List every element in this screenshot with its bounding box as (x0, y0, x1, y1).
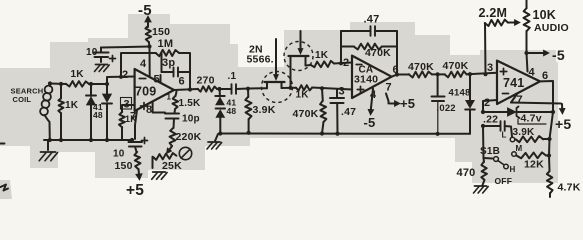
output wire U2 to 741 (392, 72, 488, 77)
op-amp U3 741 (484, 61, 548, 109)
switch S1B position H (504, 164, 516, 174)
svg-text:270: 270 (197, 75, 215, 87)
transistor Q1a 2N5566 JFET (lower) (247, 39, 297, 103)
svg-text:10p: 10p (182, 114, 200, 125)
power -5 (U1 pin 4 supply) (138, 2, 152, 27)
power +5 (U2 pin 7) (386, 94, 415, 112)
resistor 470K (U2 feedback) (354, 43, 391, 59)
resistor 1K (U1 pin3 to gnd) (119, 112, 137, 140)
svg-text:741: 741 (503, 76, 524, 90)
ground (470 / S1B) (474, 180, 489, 193)
wire U3 pin 2 (481, 100, 497, 128)
power +5 (U1 pin 7 supply) (126, 169, 144, 199)
svg-text:.47: .47 (364, 14, 380, 26)
switch S1B position L + resistor 3.9K (502, 127, 550, 142)
svg-text:10K: 10K (533, 8, 557, 22)
svg-text:L: L (502, 131, 507, 140)
resistor 1K (to U2 pin 3) (296, 85, 353, 100)
svg-text:-5: -5 (552, 47, 565, 63)
svg-text:3: 3 (487, 62, 493, 74)
svg-text:M: M (516, 144, 523, 153)
diode D2 1N4148 (clip, down) (93, 84, 112, 140)
svg-text:4.7K: 4.7K (558, 182, 581, 194)
wire U1 pin 3 to 1K (122, 105, 135, 112)
resistor 150 (to -5) (145, 26, 170, 49)
capacitor .022 (432, 74, 456, 134)
svg-text:2.2M: 2.2M (479, 6, 508, 20)
resistor 1K (series, horizontal) (66, 69, 109, 87)
op-amp U1 709 (121, 69, 185, 123)
resistor 4.7K (547, 171, 581, 197)
svg-text:150: 150 (152, 26, 170, 38)
feedback box (U2): wires (341, 31, 399, 77)
svg-text:470: 470 (457, 167, 476, 179)
switch S1B wiper (480, 126, 504, 165)
svg-text:3140: 3140 (354, 74, 378, 86)
svg-text:2: 2 (122, 69, 128, 81)
capacitor .47 (U2 feedback) (364, 14, 380, 36)
corner scribble (0, 144, 8, 191)
svg-text:.22: .22 (483, 114, 498, 126)
ground bus (input) (44, 138, 132, 142)
svg-text:4: 4 (140, 58, 147, 70)
diode D4 1N4148 (series, up) (216, 98, 237, 134)
svg-text:OFF: OFF (495, 176, 513, 186)
capacitor .1 (coupling) (228, 71, 249, 94)
svg-text:470K: 470K (408, 61, 434, 73)
svg-text:1K: 1K (71, 69, 85, 80)
capacitor 3p (feedback) (162, 53, 191, 77)
svg-text:10: 10 (113, 149, 125, 160)
svg-text:1K: 1K (296, 90, 310, 101)
output wire U1 (174, 87, 222, 91)
svg-text:7: 7 (517, 94, 523, 106)
svg-text:1M: 1M (158, 38, 174, 50)
svg-text:+5: +5 (126, 182, 144, 199)
svg-text:2: 2 (343, 57, 349, 69)
scan shading (0, 14, 558, 183)
svg-text:7: 7 (386, 82, 392, 94)
feedback rail (U1) (121, 53, 192, 92)
resistor 1K (coil damping, vertical) (58, 84, 78, 140)
trimpot 25K with arrow (153, 146, 183, 172)
svg-text:1: 1 (167, 93, 172, 102)
svg-text:AUDIO: AUDIO (534, 22, 569, 34)
potentiometer 10K AUDIO (524, 0, 569, 55)
ground (10uF cap) (95, 65, 110, 72)
wire U1 pin 7 down (130, 110, 137, 142)
op-amp U2 CA3140 (339, 56, 399, 101)
diode D3 1N4148 (series, up) (215, 89, 224, 105)
svg-text:1.5K: 1.5K (179, 98, 202, 109)
transistor Q1b 2N5566 JFET (upper) (284, 31, 313, 90)
wire coil top node (48, 81, 66, 86)
ground bus (center) (218, 131, 470, 136)
svg-text:.1: .1 (228, 71, 237, 82)
ground (search coil) (39, 140, 57, 161)
compensation 1.5K (173, 92, 202, 110)
svg-text:H: H (510, 165, 516, 174)
switch S1B position M + resistor 12K (512, 144, 549, 171)
capacitor .47 (U2 pin3 to bus) (330, 89, 356, 134)
svg-text:+5: +5 (400, 96, 415, 111)
capacitor 10uF (decoupling -5) (86, 47, 150, 63)
svg-text:-5: -5 (138, 2, 152, 19)
switch S1B position OFF (495, 176, 513, 186)
resistor 2.2M (U3 feedback) (479, 6, 521, 74)
power +5 (U3 pin 7) (511, 94, 571, 132)
svg-text:4148: 4148 (449, 88, 471, 99)
svg-text:709: 709 (135, 85, 156, 99)
wire U1 pin 8 (153, 102, 165, 113)
power -5 (U2 pin 4) (364, 89, 376, 131)
power -5 (U3 pin 4 node) (527, 47, 565, 63)
svg-text:12K: 12K (524, 159, 544, 171)
resistor 1K (to U2 pin 2) (311, 50, 352, 67)
svg-text:150: 150 (115, 160, 133, 172)
diode D1 1N4148 (clip, up) (86, 84, 96, 140)
svg-text:-5: -5 (364, 115, 376, 130)
svg-text:5566.: 5566. (247, 54, 274, 66)
resistor 150 (to +5) (115, 152, 141, 172)
svg-text:48: 48 (227, 106, 237, 116)
svg-text:48: 48 (93, 110, 103, 120)
search coil L1 (11, 83, 53, 140)
diode D5 1N4148 (to bus) (449, 74, 475, 134)
resistor 470K (b) (443, 60, 498, 78)
capacitor 10uF (U1 +5 decoupling) (113, 138, 148, 160)
svg-text:6: 6 (179, 76, 185, 88)
output wire U3 down (540, 81, 553, 171)
resistor 1M (feedback) (156, 38, 179, 56)
ground (25K pot) (152, 172, 167, 179)
resistor 470 (457, 158, 487, 180)
wire U1 pin 4 (140, 47, 150, 78)
resistor 470K (U2 pin3 to bus) (293, 88, 327, 133)
svg-text:1K: 1K (65, 100, 79, 111)
wire U1 pin 5 (160, 75, 162, 83)
svg-text:25K: 25K (162, 160, 182, 172)
svg-text:2: 2 (484, 97, 490, 109)
resistor 270 (197, 75, 232, 92)
svg-text:220K: 220K (176, 131, 202, 143)
svg-text:3: 3 (339, 86, 345, 98)
svg-text:.47: .47 (341, 106, 356, 118)
svg-text:470K: 470K (293, 108, 319, 120)
resistor 220K (170, 128, 202, 146)
svg-text:8: 8 (146, 104, 152, 116)
ground (center bus) (207, 134, 222, 149)
svg-text:1K: 1K (315, 50, 329, 61)
wire to pin 2 of U1 (107, 75, 135, 84)
capacitor 10p (165, 109, 200, 128)
svg-text:5: 5 (154, 74, 160, 86)
svg-text:COIL: COIL (13, 95, 32, 104)
svg-text:470K: 470K (443, 60, 469, 72)
diode zener 4.7V (483, 107, 555, 125)
svg-text:+5: +5 (555, 116, 571, 132)
svg-text:4.7v: 4.7v (521, 113, 542, 125)
wire U3 pin 4 (527, 53, 536, 79)
screwdriver-adjust symbol (179, 147, 191, 159)
svg-text:.022: .022 (437, 103, 456, 114)
svg-text:3.9K: 3.9K (253, 104, 276, 116)
resistor 3.9K (to bus) (245, 87, 275, 133)
capacitor .22 (483, 114, 512, 137)
resistor 470K (a) (408, 61, 445, 78)
